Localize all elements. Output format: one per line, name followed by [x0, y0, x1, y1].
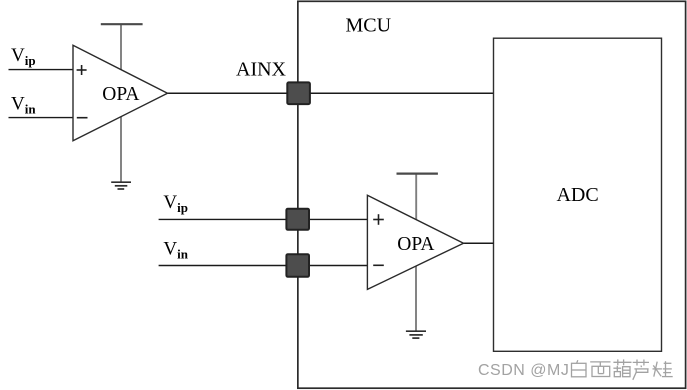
wire Vin to U1 - input — [9, 117, 74, 119]
watermark CJK glyph 葫 — [613, 359, 631, 376]
wire Vip to U2 + input (pin) — [159, 218, 368, 220]
pin AINX (MCU pad) — [287, 82, 310, 104]
svg-text:AINX: AINX — [236, 58, 287, 80]
U2 - input marker — [373, 264, 384, 266]
wire U1 V+ supply stem — [120, 24, 122, 70]
svg-text:CSDN @MJ: CSDN @MJ — [478, 362, 569, 379]
svg-text:Vin: Vin — [11, 93, 36, 116]
ground U2 — [406, 331, 426, 338]
wire U1 output to ADC (net AINX) — [168, 92, 494, 94]
MCU block — [298, 1, 686, 388]
wire U2 ground stem — [415, 266, 417, 332]
watermark CJK glyph 面 — [590, 362, 610, 377]
wire U2 output to ADC — [464, 242, 494, 244]
wire U1 ground stem — [120, 116, 122, 183]
svg-text:OPA: OPA — [102, 84, 139, 105]
wire Vin to U2 - input (pin) — [159, 265, 368, 267]
pin Vin (MCU pad) — [286, 254, 309, 277]
pin Vip (MCU pad) — [286, 209, 309, 230]
ADC block — [494, 38, 662, 351]
ground U1 — [111, 182, 131, 189]
svg-text:ADC: ADC — [556, 184, 598, 206]
svg-text:MCU: MCU — [346, 15, 392, 37]
op-amp U2 body — [367, 195, 463, 289]
watermark CJK glyph 芦 — [633, 360, 649, 380]
supply rail bar U2 V+ — [397, 173, 438, 175]
wire Vip to U1 + input — [9, 69, 74, 71]
U1 - input marker — [77, 117, 88, 119]
svg-text:Vip: Vip — [11, 45, 36, 68]
wire U2 V+ supply stem — [415, 174, 417, 221]
U1 + input marker — [77, 65, 87, 75]
svg-text:Vin: Vin — [163, 238, 188, 261]
U2 + input marker — [373, 214, 384, 225]
watermark CJK glyph 白 — [572, 360, 587, 377]
op-amp U1 body — [73, 45, 168, 141]
watermark CSDN @MJ白面葫芦娃 — [478, 362, 569, 379]
svg-text:OPA: OPA — [397, 234, 434, 255]
watermark CJK glyph 娃 — [653, 361, 673, 376]
supply rail bar U1 V+ — [101, 23, 143, 25]
svg-text:Vip: Vip — [163, 192, 188, 215]
